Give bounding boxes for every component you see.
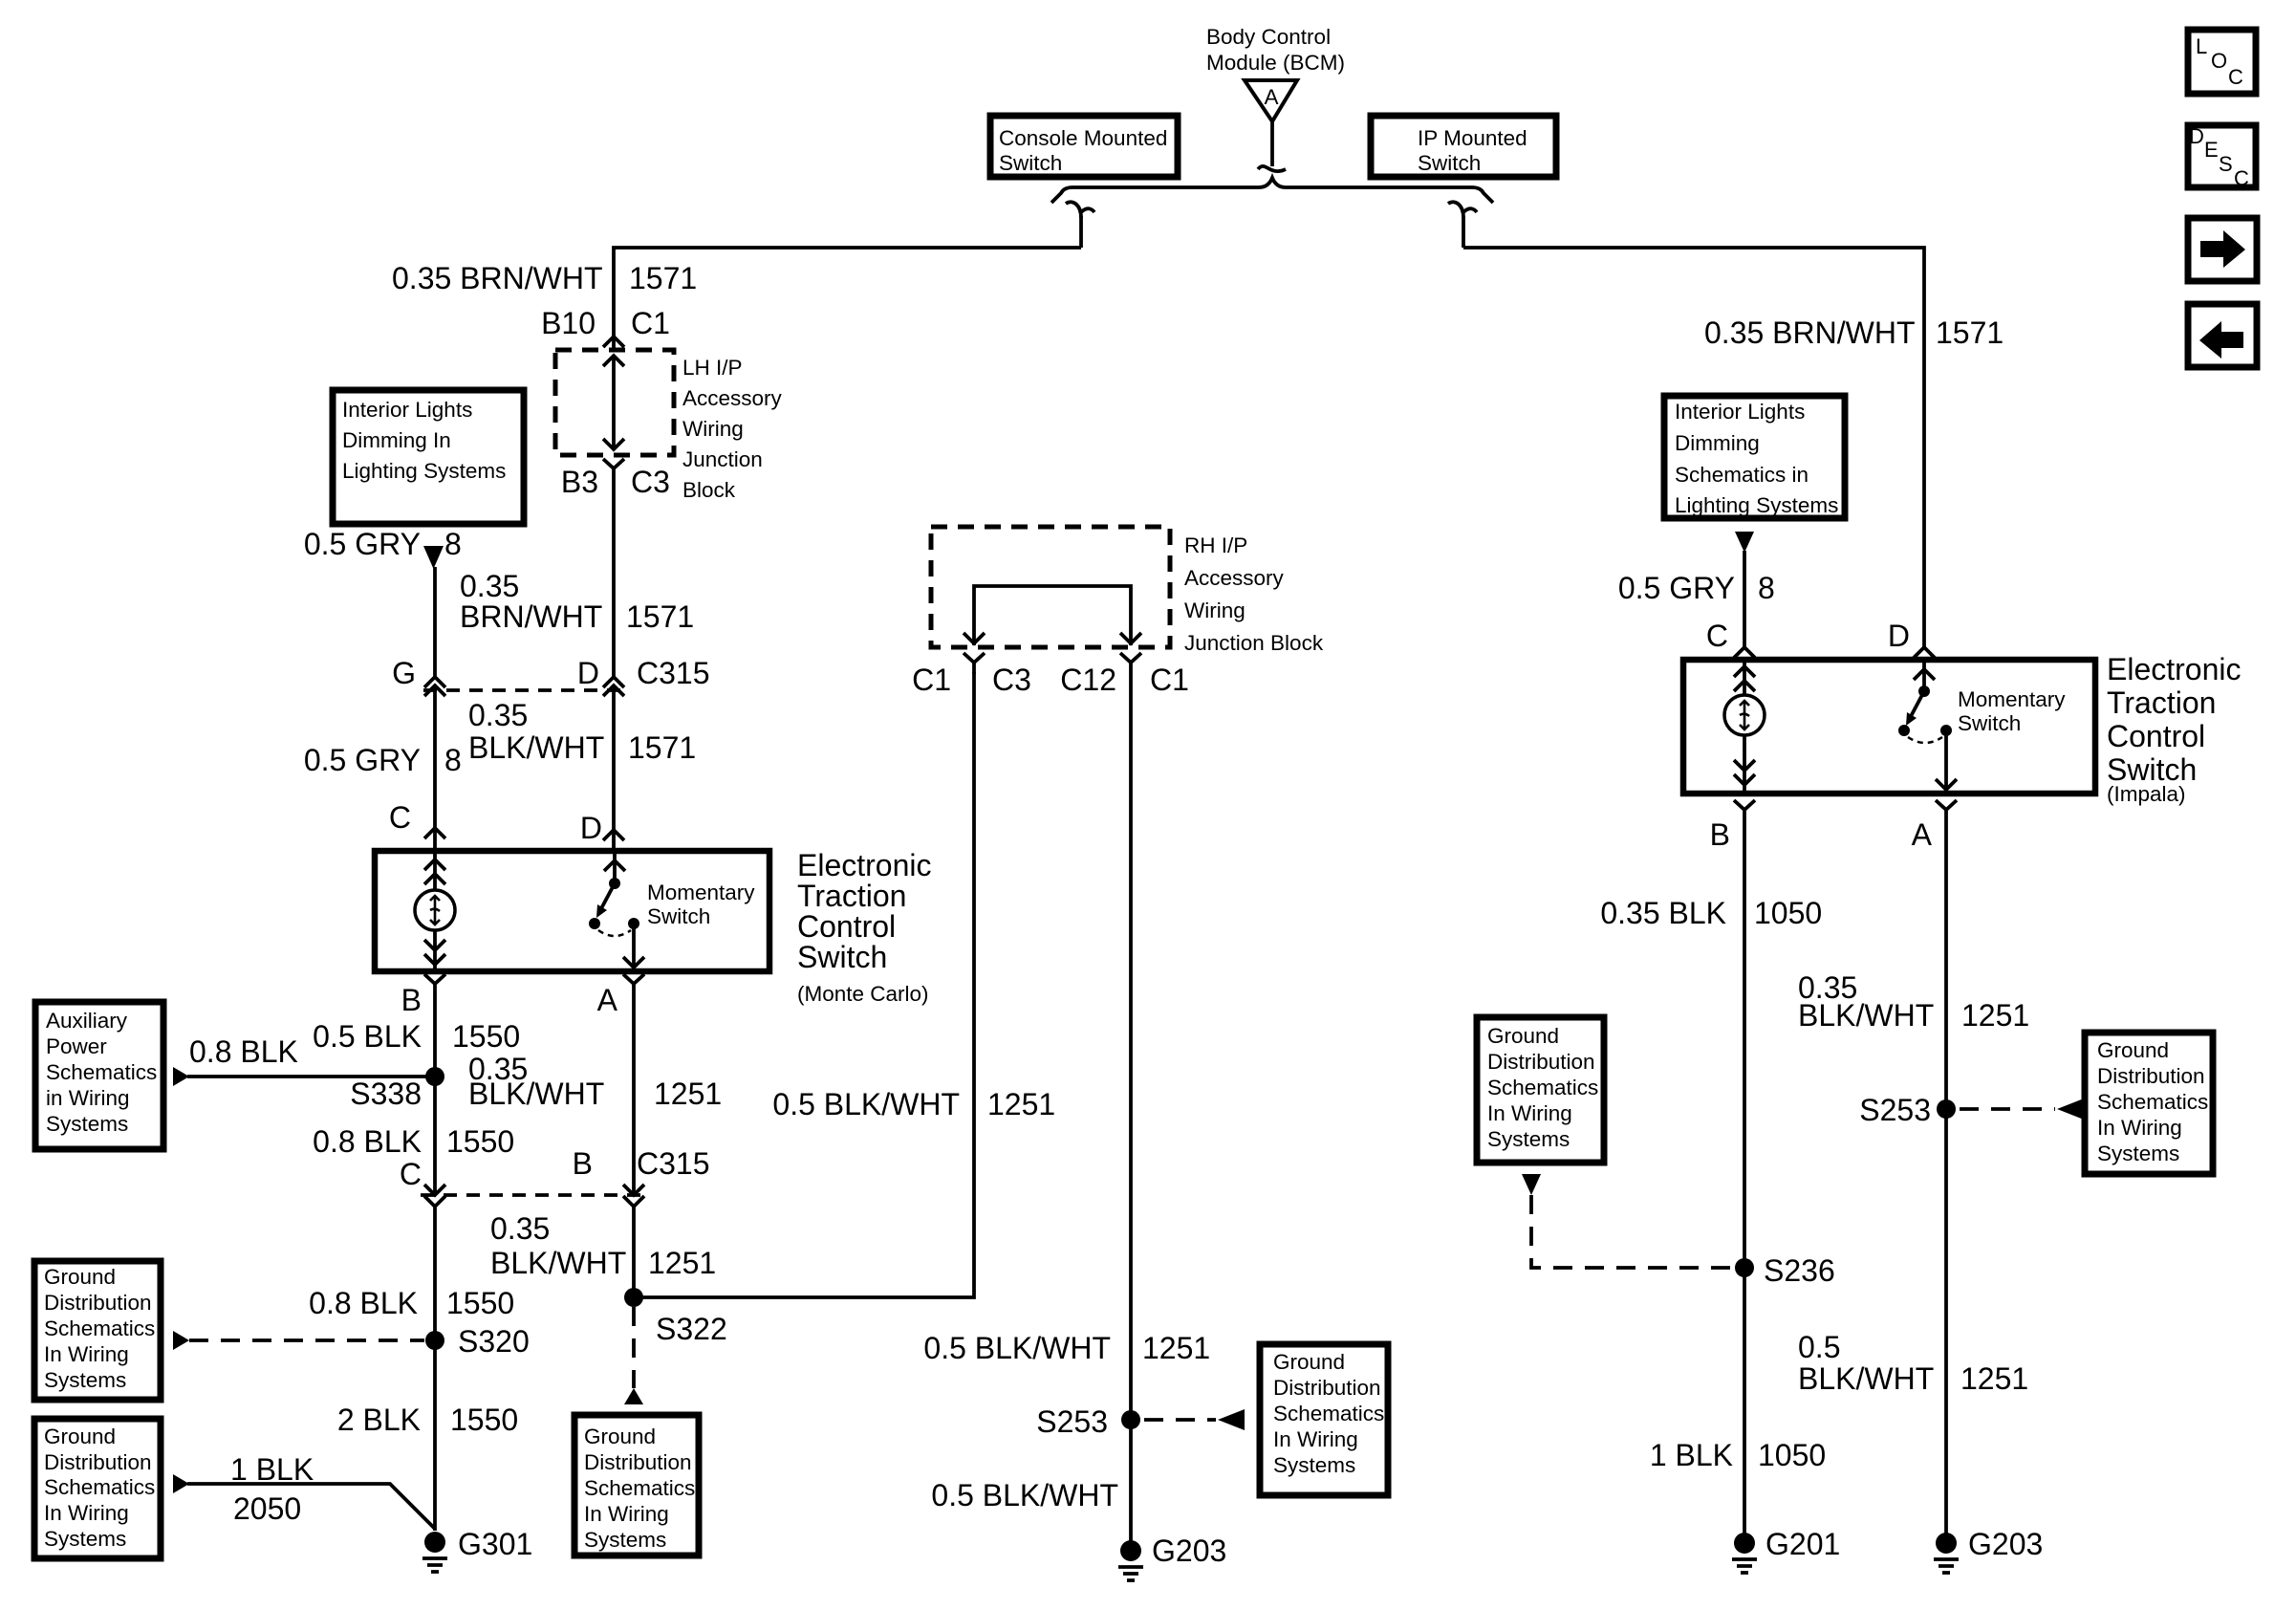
svg-text:B: B xyxy=(401,983,422,1017)
svg-text:Traction: Traction xyxy=(2107,685,2216,720)
wire 1 BLK 2050 to G301 xyxy=(187,1484,435,1529)
splice S320 xyxy=(425,1324,530,1359)
svg-text:A: A xyxy=(1264,85,1278,109)
label RH I/P Accessory Wiring Junction Block xyxy=(1184,533,1324,655)
svg-text:Schematics: Schematics xyxy=(44,1316,155,1340)
svg-text:Distribution: Distribution xyxy=(2097,1064,2205,1088)
svg-text:1251: 1251 xyxy=(1960,1361,2028,1396)
label 0.5 GRY 8 (right) xyxy=(1618,571,1775,605)
wire 0.8 BLK (S338 branch) xyxy=(187,1075,435,1078)
lamp illumination symbol (Impala) xyxy=(1724,695,1765,735)
svg-text:0.5 BLK: 0.5 BLK xyxy=(313,1019,422,1054)
wire dashed reference S253 to Ground Distribution box (right) xyxy=(1960,1107,2055,1111)
wire lamp to pin B inside switch (Impala) xyxy=(1734,735,1755,794)
svg-text:0.35: 0.35 xyxy=(490,1211,550,1246)
svg-text:1251: 1251 xyxy=(1961,998,2029,1033)
svg-text:Distribution: Distribution xyxy=(584,1450,692,1474)
svg-text:In Wiring: In Wiring xyxy=(2097,1116,2182,1140)
arrow from Interior Lights box down (right) xyxy=(1735,532,1754,553)
label 0.35 BLK/WHT 1251 (Impala pin A) xyxy=(1798,970,2029,1033)
svg-text:Systems: Systems xyxy=(1487,1127,1570,1151)
svg-text:Switch: Switch xyxy=(647,904,710,928)
ground G203 (middle) xyxy=(1118,1534,1226,1580)
wire lamp feed inside switch (pin C) xyxy=(424,851,445,890)
svg-text:(Impala): (Impala) xyxy=(2107,782,2186,806)
svg-text:in Wiring: in Wiring xyxy=(46,1086,130,1110)
svg-text:8: 8 xyxy=(444,743,462,777)
splice S253 (middle) xyxy=(1036,1404,1140,1439)
svg-text:0.35 BRN/WHT: 0.35 BRN/WHT xyxy=(392,261,602,295)
label Electronic Traction Control Switch (Impala) xyxy=(2107,652,2242,806)
connector C315 dashed line (lower) xyxy=(421,1193,648,1197)
pin B10 / C1 labels xyxy=(541,306,670,340)
svg-text:B10: B10 xyxy=(541,306,596,340)
svg-text:Systems: Systems xyxy=(46,1112,128,1136)
svg-text:0.5 GRY: 0.5 GRY xyxy=(304,527,421,561)
wire right branch horizontal to IP switch column xyxy=(1463,248,1924,647)
svg-text:Schematics: Schematics xyxy=(44,1475,155,1499)
node Interior Lights Dimming Schematics in Lighting Systems box (right) xyxy=(1664,396,1845,518)
svg-text:S338: S338 xyxy=(350,1077,422,1111)
svg-text:A: A xyxy=(1912,817,1933,852)
arrow reference from S322 dashed wire xyxy=(624,1388,643,1404)
svg-text:Ground: Ground xyxy=(1487,1024,1559,1048)
wire lamp to pin B inside switch xyxy=(424,930,445,971)
svg-text:E: E xyxy=(2204,138,2219,162)
node Ground Distribution Schematics In Wiring Systems box (S236 ref) xyxy=(1477,1017,1604,1163)
pin C1 / C3 labels (left) xyxy=(912,663,1031,697)
svg-text:8: 8 xyxy=(1758,571,1775,605)
ground G201 xyxy=(1732,1527,1840,1573)
label LH I/P Accessory Wiring Junction Block xyxy=(682,356,783,502)
svg-text:Ground: Ground xyxy=(2097,1038,2169,1062)
svg-text:Distribution: Distribution xyxy=(1487,1050,1595,1074)
svg-text:Dimming: Dimming xyxy=(1675,431,1760,455)
wire 0.35 BLK/WHT 1251 (pin A down) xyxy=(632,995,636,1195)
svg-text:2 BLK: 2 BLK xyxy=(337,1403,421,1437)
svg-text:BLK/WHT: BLK/WHT xyxy=(1798,998,1934,1033)
label 0.5 GRY 8 xyxy=(304,527,462,561)
wire break hook right branch xyxy=(1448,202,1477,218)
svg-text:1251: 1251 xyxy=(654,1077,722,1111)
svg-text:C315: C315 xyxy=(637,656,710,690)
svg-text:Traction: Traction xyxy=(797,879,906,913)
wire dashed reference to S320 xyxy=(189,1338,424,1342)
svg-text:Electronic: Electronic xyxy=(2107,652,2242,686)
svg-text:Distribution: Distribution xyxy=(1273,1376,1381,1400)
svg-text:Electronic: Electronic xyxy=(797,848,932,882)
wire right branch vertical xyxy=(1462,216,1465,248)
svg-text:G: G xyxy=(392,656,416,690)
label 0.8 BLK 1550 xyxy=(313,1124,514,1159)
svg-text:Body Control: Body Control xyxy=(1206,25,1331,49)
connector C315 dashed line (upper) xyxy=(423,688,627,692)
wire 0.35 BLK/WHT 1251 (Impala pin A to G203) xyxy=(1944,821,1948,1542)
svg-text:Control: Control xyxy=(2107,719,2205,753)
svg-text:S236: S236 xyxy=(1764,1253,1835,1288)
node Ground Distribution Schematics In Wiring Systems box (mid) xyxy=(574,1415,699,1556)
icon LOC box xyxy=(2188,30,2256,94)
svg-text:In Wiring: In Wiring xyxy=(44,1342,129,1366)
svg-text:S320: S320 xyxy=(458,1324,530,1359)
svg-text:Ground: Ground xyxy=(44,1425,116,1448)
svg-text:BLK/WHT: BLK/WHT xyxy=(468,1077,604,1111)
svg-text:0.5 GRY: 0.5 GRY xyxy=(304,743,421,777)
svg-text:Systems: Systems xyxy=(44,1368,126,1392)
svg-text:BLK/WHT: BLK/WHT xyxy=(1798,1361,1934,1396)
label 0.35 BRN/WHT 1571 xyxy=(460,569,694,634)
svg-text:C1: C1 xyxy=(631,306,670,340)
svg-text:Schematics: Schematics xyxy=(1273,1402,1384,1425)
svg-text:Wiring: Wiring xyxy=(682,417,744,441)
svg-text:Systems: Systems xyxy=(1273,1453,1355,1477)
svg-text:In Wiring: In Wiring xyxy=(1487,1101,1572,1125)
wire lamp feed inside switch (Impala pin C) xyxy=(1734,660,1755,695)
svg-text:C12: C12 xyxy=(1060,663,1116,697)
svg-text:1571: 1571 xyxy=(628,730,696,765)
node Interior Lights Dimming In Lighting Systems box (left) xyxy=(333,390,524,524)
connector D chevron above switch box xyxy=(603,830,624,840)
connector A Y below switch (Impala) xyxy=(1936,800,1957,821)
svg-text:G301: G301 xyxy=(458,1527,532,1561)
svg-text:(Monte Carlo): (Monte Carlo) xyxy=(797,982,929,1006)
svg-text:0.35: 0.35 xyxy=(460,569,519,603)
svg-text:1550: 1550 xyxy=(446,1124,514,1159)
wire 0.5 BLK/WHT 1251 (C12 down to G203) xyxy=(1129,674,1133,1542)
svg-text:2050: 2050 xyxy=(233,1491,301,1526)
splice S322 xyxy=(624,1288,727,1346)
icon DESC box xyxy=(2188,124,2256,190)
svg-text:Switch: Switch xyxy=(1958,711,2021,735)
svg-text:0.35 BLK: 0.35 BLK xyxy=(1600,896,1726,930)
svg-text:S253: S253 xyxy=(1859,1093,1931,1127)
svg-text:Momentary: Momentary xyxy=(647,881,755,904)
svg-text:Junction: Junction xyxy=(682,447,763,471)
svg-text:Schematics: Schematics xyxy=(46,1060,157,1084)
svg-text:Interior Lights: Interior Lights xyxy=(1675,400,1805,424)
connector G chevron at C315 xyxy=(424,677,445,687)
node RH I/P Accessory Wiring Junction Block dashed box xyxy=(931,527,1170,647)
svg-text:C: C xyxy=(400,1157,422,1191)
svg-text:0.8 BLK: 0.8 BLK xyxy=(309,1286,418,1320)
node Ground Distribution Schematics In Wiring Systems box (right) xyxy=(2085,1033,2213,1174)
svg-text:G201: G201 xyxy=(1765,1527,1840,1561)
svg-text:O: O xyxy=(2211,49,2227,73)
arrow reference to Ground Distribution schematics (G301) xyxy=(173,1474,189,1493)
svg-text:In Wiring: In Wiring xyxy=(44,1501,129,1525)
svg-text:C1: C1 xyxy=(1150,663,1189,697)
svg-text:D: D xyxy=(580,811,602,845)
node Auxiliary Power Schematics in Wiring Systems box xyxy=(35,1002,163,1149)
svg-text:1571: 1571 xyxy=(1936,315,2004,350)
svg-text:C315: C315 xyxy=(637,1146,710,1181)
svg-text:C: C xyxy=(2234,166,2249,190)
svg-text:0.5 BLK/WHT: 0.5 BLK/WHT xyxy=(923,1331,1111,1365)
wire 0.35 BLK/WHT 1571 (C315 to switch pin D) xyxy=(612,685,616,849)
connector C chevron above Impala switch xyxy=(1734,647,1755,658)
label 1 BLK 1050 xyxy=(1650,1438,1826,1472)
label 2 BLK 1550 xyxy=(337,1403,518,1437)
connector D chevron at C315 xyxy=(603,677,624,687)
svg-text:Accessory: Accessory xyxy=(682,386,783,410)
momentary switch symbol (Impala) xyxy=(1898,660,1957,792)
splice S338 xyxy=(350,1067,444,1111)
connector B Y below switch (Impala) xyxy=(1734,800,1755,821)
splice S236 xyxy=(1735,1253,1835,1288)
svg-text:S322: S322 xyxy=(656,1312,727,1346)
svg-text:G203: G203 xyxy=(1152,1534,1226,1568)
svg-text:BLK/WHT: BLK/WHT xyxy=(490,1246,626,1280)
svg-text:A: A xyxy=(597,983,618,1017)
svg-text:1550: 1550 xyxy=(452,1019,520,1054)
node Ground Distribution Schematics In Wiring Systems box (middle) xyxy=(1260,1344,1388,1495)
svg-text:BLK/WHT: BLK/WHT xyxy=(468,730,604,765)
svg-text:Systems: Systems xyxy=(584,1528,666,1552)
svg-text:D: D xyxy=(1888,619,1910,653)
wire BCM stem xyxy=(1270,121,1274,166)
svg-text:G203: G203 xyxy=(1968,1527,2043,1561)
pin B label / C315 (lower) xyxy=(573,1146,710,1181)
connector B chevron below lower C315 xyxy=(623,1196,644,1207)
label 0.35 BLK 1050 xyxy=(1600,896,1822,930)
connector B male arrow above lower C315 xyxy=(623,1185,644,1195)
svg-text:C: C xyxy=(2228,65,2243,89)
wire 0.35 BLK/WHT 1251 (C315 to S322) xyxy=(632,1207,636,1297)
label 0.35 BRN/WHT 1571 (left branch) xyxy=(392,261,697,295)
pin C12 / C1 labels (right) xyxy=(1060,663,1189,697)
connector C1 chevron xyxy=(603,337,624,347)
svg-text:IP Mounted: IP Mounted xyxy=(1418,126,1527,150)
svg-text:Switch: Switch xyxy=(999,151,1062,175)
svg-text:Block: Block xyxy=(682,478,736,502)
svg-text:Momentary: Momentary xyxy=(1958,687,2066,711)
connector B3/C3 Y below junction block xyxy=(603,459,624,480)
label 1 BLK 2050 xyxy=(230,1452,314,1526)
svg-text:0.35 BRN/WHT: 0.35 BRN/WHT xyxy=(1704,315,1915,350)
svg-text:0.8 BLK: 0.8 BLK xyxy=(313,1124,422,1159)
wire left branch vertical xyxy=(1079,216,1083,248)
wire left branch horizontal to console switch column xyxy=(614,248,1081,337)
svg-text:0.35: 0.35 xyxy=(468,698,528,732)
svg-text:1251: 1251 xyxy=(1142,1331,1210,1365)
wire inside LH junction block xyxy=(603,356,624,449)
svg-text:1 BLK: 1 BLK xyxy=(1650,1438,1733,1472)
label 0.5 GRY 8 (second) xyxy=(304,743,462,777)
svg-text:1571: 1571 xyxy=(626,599,694,634)
svg-text:D: D xyxy=(577,656,599,690)
wire 0.5 GRY (left column upper) xyxy=(433,567,437,677)
label 0.35 BLK/WHT 1251 xyxy=(468,1052,722,1111)
svg-text:Schematics: Schematics xyxy=(1487,1076,1598,1099)
label 0.5 BLK 1550 xyxy=(313,1019,520,1054)
svg-text:Ground: Ground xyxy=(584,1425,656,1448)
svg-text:D: D xyxy=(2189,124,2204,148)
component Electronic Traction Control Switch (Impala) box xyxy=(1683,660,2095,794)
svg-text:1 BLK: 1 BLK xyxy=(230,1452,314,1487)
wire 0.5 GRY (right section) xyxy=(1743,551,1746,647)
label 0.35 BLK/WHT 1251 (second) xyxy=(490,1211,716,1280)
lamp illumination symbol (Monte Carlo) xyxy=(415,890,455,930)
label Momentary Switch (Monte Carlo) xyxy=(647,881,755,928)
svg-text:Systems: Systems xyxy=(2097,1142,2179,1165)
svg-text:Dimming In: Dimming In xyxy=(342,428,451,452)
wire 0.8 BLK 1550 (C315 to S320) xyxy=(433,1207,437,1531)
svg-text:Accessory: Accessory xyxy=(1184,566,1285,590)
icon left-arrow box xyxy=(2188,304,2257,367)
svg-text:Wiring: Wiring xyxy=(1184,598,1245,622)
wire 0.5 BLK 1550 (pin B down to S338) xyxy=(433,995,437,1195)
svg-text:0.8 BLK: 0.8 BLK xyxy=(189,1034,298,1069)
connector C chevron above switch box xyxy=(424,828,445,838)
svg-text:Schematics: Schematics xyxy=(2097,1090,2208,1114)
icon right-arrow box xyxy=(2188,218,2257,281)
svg-text:B3: B3 xyxy=(561,465,598,499)
svg-text:Control: Control xyxy=(797,909,896,944)
connector B Y below switch (Monte Carlo) xyxy=(424,974,445,995)
label Electronic Traction Control Switch (Monte Carlo) xyxy=(797,848,932,1006)
wire 0.35 BRN/WHT 1571 (junction block to C315) xyxy=(612,480,616,677)
svg-text:Schematics in: Schematics in xyxy=(1675,463,1809,487)
label Momentary Switch (Impala) xyxy=(1958,687,2066,735)
svg-text:RH I/P: RH I/P xyxy=(1184,533,1247,557)
connector C male arrow above lower C315 xyxy=(424,1185,445,1195)
wire dashed reference to S236 xyxy=(1531,1195,1730,1268)
wire dashed reference S253 to Ground Distribution box xyxy=(1144,1418,1216,1422)
svg-text:Power: Power xyxy=(46,1034,107,1058)
svg-text:Switch: Switch xyxy=(1418,151,1481,175)
ground G301 xyxy=(422,1527,532,1572)
svg-text:Lighting Systems: Lighting Systems xyxy=(342,459,506,483)
svg-text:C3: C3 xyxy=(631,465,670,499)
svg-text:C: C xyxy=(389,800,411,835)
wire break hook left branch xyxy=(1066,202,1094,218)
svg-text:1550: 1550 xyxy=(450,1403,518,1437)
svg-text:0.5 BLK/WHT: 0.5 BLK/WHT xyxy=(772,1087,960,1121)
connector G male arrow below C315 xyxy=(424,685,445,696)
node Body Control Module (BCM) label xyxy=(1206,25,1345,75)
wire break squiggle under BCM stem xyxy=(1258,166,1286,171)
wire dashed reference S322 to Ground Distribution box xyxy=(632,1307,636,1388)
svg-text:S253: S253 xyxy=(1036,1404,1108,1439)
node Console Mounted Switch box xyxy=(990,116,1178,177)
connector A triangle of BCM xyxy=(1245,80,1297,121)
svg-text:S: S xyxy=(2219,152,2233,176)
pin B3 / C3 labels xyxy=(561,465,670,499)
label 0.35 BLK/WHT 1571 xyxy=(468,698,696,765)
svg-text:1050: 1050 xyxy=(1754,896,1822,930)
svg-text:L: L xyxy=(2196,34,2207,58)
svg-text:8: 8 xyxy=(444,527,462,561)
svg-text:1050: 1050 xyxy=(1758,1438,1826,1472)
component Electronic Traction Control Switch (Monte Carlo) box xyxy=(375,851,769,971)
connector C chevron below lower C315 xyxy=(424,1196,445,1207)
svg-text:1571: 1571 xyxy=(629,261,697,295)
svg-text:1251: 1251 xyxy=(648,1246,716,1280)
svg-text:1251: 1251 xyxy=(987,1087,1055,1121)
svg-text:Lighting Systems: Lighting Systems xyxy=(1675,493,1838,517)
svg-text:Auxiliary: Auxiliary xyxy=(46,1009,128,1033)
label 0.8 BLK 1550 (second) xyxy=(309,1286,514,1320)
svg-text:C: C xyxy=(1706,619,1728,653)
svg-text:Switch: Switch xyxy=(797,940,887,974)
wire 0.5 GRY (to switch pin C) xyxy=(433,685,437,849)
label 0.5 BLK/WHT 1251 (lower right) xyxy=(1798,1330,2028,1396)
brace joining switch wires to BCM xyxy=(1051,178,1493,203)
svg-text:In Wiring: In Wiring xyxy=(1273,1427,1358,1451)
svg-text:0.5 GRY: 0.5 GRY xyxy=(1618,571,1735,605)
momentary switch symbol (Monte Carlo) xyxy=(589,851,644,969)
arrow reference from S253 dashed wire xyxy=(1218,1409,1245,1430)
svg-text:Console Mounted: Console Mounted xyxy=(999,126,1167,150)
svg-text:1550: 1550 xyxy=(446,1286,514,1320)
wire LH junction block upper (B10-C1 to dashed box) xyxy=(612,335,616,350)
arrow reference to Ground Distribution schematics (S320) xyxy=(173,1331,189,1350)
svg-text:Ground: Ground xyxy=(44,1265,116,1289)
arrow reference to Auxiliary Power schematics xyxy=(173,1067,189,1086)
label 0.5 BLK/WHT 1251 (C12 wire) xyxy=(923,1331,1210,1365)
arrow reference from Ground Distribution box to S236 xyxy=(1522,1174,1541,1195)
svg-text:Junction Block: Junction Block xyxy=(1184,631,1324,655)
label 0.5 BLK/WHT 1251 (C3 wire) xyxy=(772,1087,1055,1121)
ground G203 (right) xyxy=(1934,1527,2043,1573)
svg-text:0.5 BLK/WHT: 0.5 BLK/WHT xyxy=(931,1478,1118,1512)
node LH I/P Accessory Wiring Junction Block dashed box xyxy=(555,350,674,455)
label 0.35 BRN/WHT 1571 (right branch) xyxy=(1704,315,2004,350)
arrow reference from S253 dashed wire (right) xyxy=(2057,1099,2084,1120)
svg-text:Schematics: Schematics xyxy=(584,1476,695,1500)
wire S322 to RH junction block pin C3 xyxy=(634,672,974,1297)
pin D label / C315 xyxy=(577,656,710,690)
connector A Y below switch (Monte Carlo) xyxy=(623,974,644,995)
connector D male arrow below C315 xyxy=(603,685,624,696)
svg-text:Ground: Ground xyxy=(1273,1350,1345,1374)
node Ground Distribution Schematics In Wiring Systems box (upper left) xyxy=(34,1261,161,1400)
wire bus inside RH junction block xyxy=(964,586,1141,645)
svg-text:Module (BCM): Module (BCM) xyxy=(1206,51,1345,75)
svg-text:Systems: Systems xyxy=(44,1527,126,1551)
splice S253 (right) xyxy=(1859,1093,1956,1127)
svg-text:0.5: 0.5 xyxy=(1798,1330,1840,1364)
svg-text:In Wiring: In Wiring xyxy=(584,1502,669,1526)
node Ground Distribution Schematics In Wiring Systems box (lower left) xyxy=(34,1419,161,1558)
wire 0.35 BLK 1050 (Impala pin B to G201) xyxy=(1743,821,1746,1542)
svg-text:C1: C1 xyxy=(912,663,951,697)
connector C12/C1 Y below RH junction block xyxy=(1120,653,1141,674)
node IP Mounted Switch box xyxy=(1371,116,1556,177)
svg-text:Distribution: Distribution xyxy=(44,1450,152,1474)
svg-text:B: B xyxy=(573,1146,593,1181)
svg-text:B: B xyxy=(1710,817,1730,852)
svg-text:LH I/P: LH I/P xyxy=(682,356,743,380)
svg-text:Interior Lights: Interior Lights xyxy=(342,398,472,422)
svg-text:BRN/WHT: BRN/WHT xyxy=(460,599,602,634)
connector C1/C3 Y below RH junction block xyxy=(964,653,985,674)
svg-text:C3: C3 xyxy=(992,663,1031,697)
svg-text:Distribution: Distribution xyxy=(44,1291,152,1315)
connector D chevron above Impala switch xyxy=(1914,647,1935,658)
arrow from Interior Lights box down xyxy=(423,546,444,569)
